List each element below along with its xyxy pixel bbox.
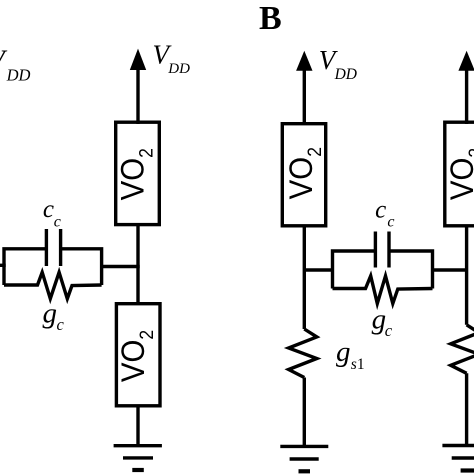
svg-text:c: c [57,315,65,334]
svg-text:s1: s1 [351,356,365,373]
svg-text:B: B [259,0,282,37]
svg-text:VO2: VO2 [114,148,156,200]
svg-text:VO2: VO2 [283,147,325,199]
svg-text:c: c [54,214,61,231]
svg-text:DD: DD [6,65,31,84]
svg-text:g: g [43,298,58,330]
svg-text:DD: DD [167,61,190,77]
svg-text:VO2: VO2 [444,148,474,200]
svg-text:c: c [387,214,394,231]
svg-text:c: c [375,196,386,223]
svg-text:c: c [385,321,393,340]
svg-text:c: c [43,196,54,223]
svg-text:VO2: VO2 [115,330,157,382]
svg-text:g: g [336,336,351,368]
svg-text:DD: DD [334,66,357,83]
